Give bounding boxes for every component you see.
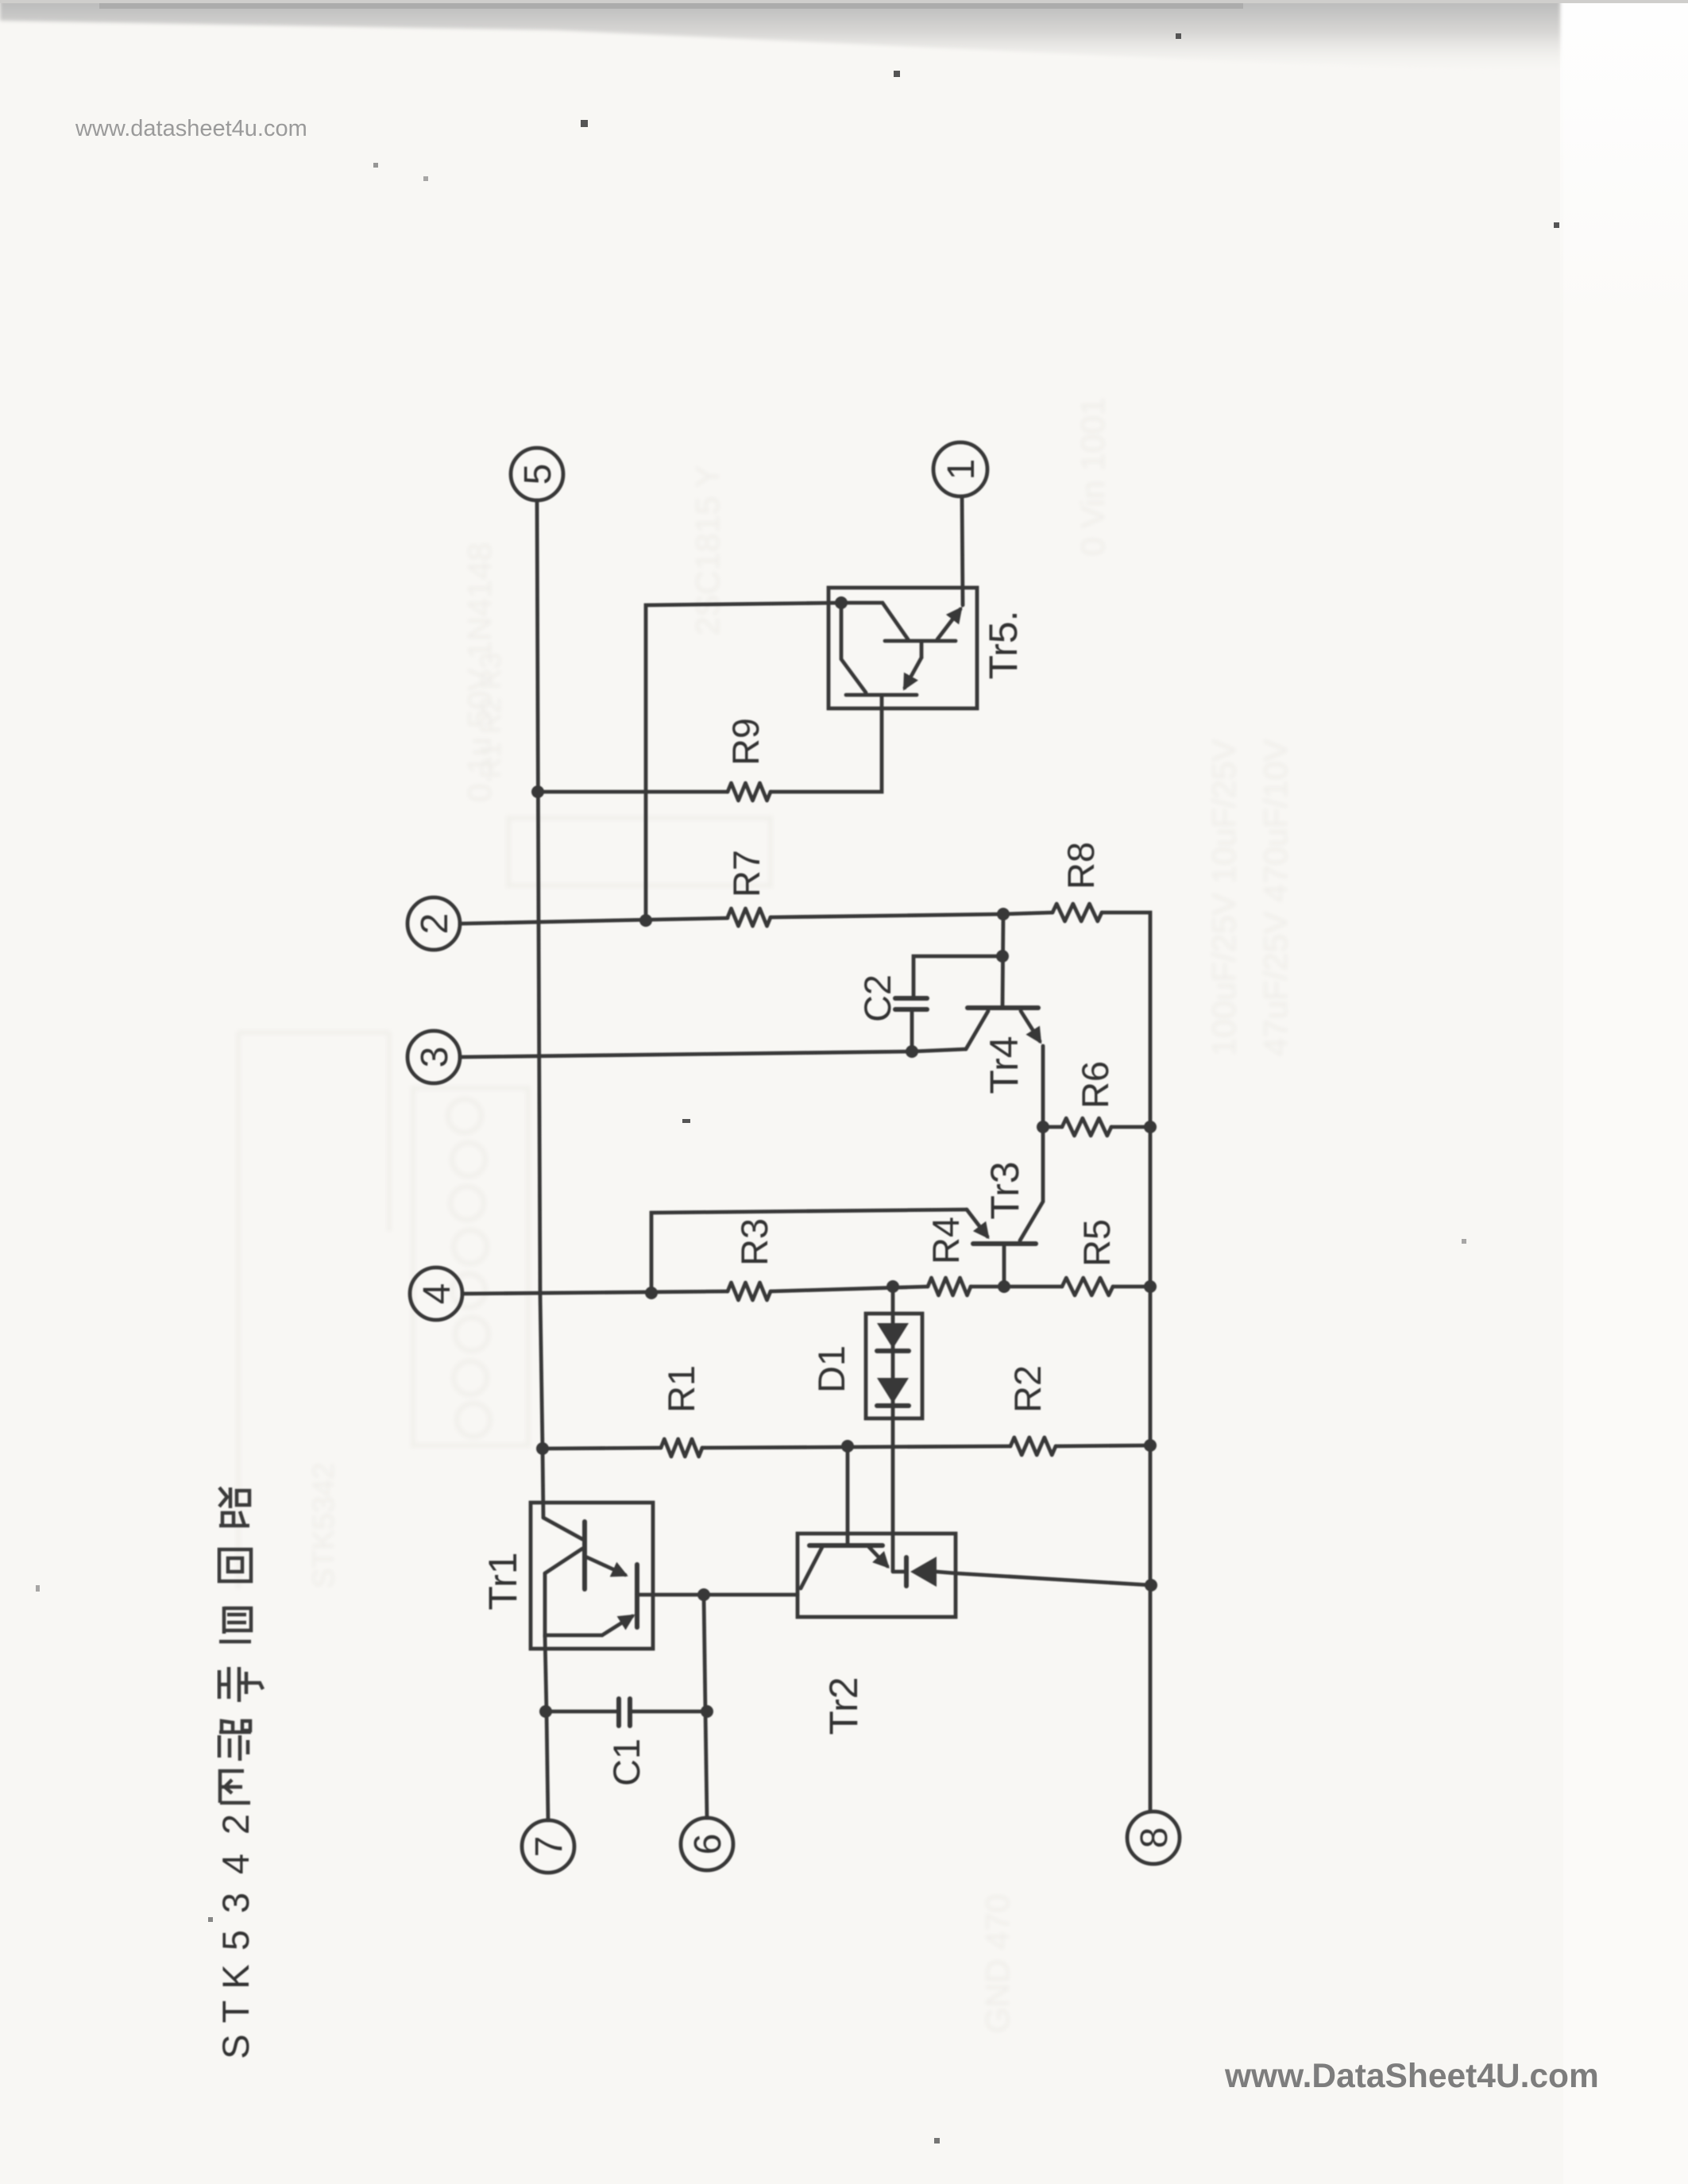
- wire pin2 net right: [771, 914, 1003, 917]
- svg-text:www.DataSheet4U.com: www.DataSheet4U.com: [1224, 2058, 1599, 2095]
- resistor R2: [1010, 1437, 1056, 1455]
- svg-text:C1: C1: [605, 1738, 647, 1786]
- svg-text:6: 6: [687, 1834, 729, 1855]
- svg-text:2SC1815 Y: 2SC1815 Y: [689, 465, 726, 635]
- kanji 路: [219, 1488, 249, 1526]
- wire Tr4 base lead: [1002, 914, 1003, 1006]
- svg-text:STK5342: STK5342: [307, 1463, 341, 1588]
- kanji 回: [219, 1549, 251, 1581]
- wire Tr1 output to Tr2: [653, 1593, 798, 1597]
- node C1 left junction: [539, 1705, 552, 1718]
- svg-text:2: 2: [414, 913, 456, 935]
- node R6 rail junction: [1144, 1121, 1157, 1133]
- wire R1 R2 net: [543, 1448, 661, 1449]
- svg-text:D1: D1: [810, 1345, 852, 1393]
- kanji 価: [219, 1607, 251, 1642]
- svg-text:S: S: [214, 2034, 257, 2059]
- svg-text:K: K: [214, 1964, 257, 1989]
- node Tr2 rail junction: [1145, 1579, 1157, 1592]
- wire R8 leads and right rail: [1003, 913, 1053, 914]
- svg-text:4: 4: [416, 1283, 458, 1305]
- svg-text:R5: R5: [1076, 1219, 1118, 1267]
- kanji 内: [220, 1771, 250, 1803]
- resistor R8: [1053, 904, 1102, 921]
- svg-text:4: 4: [214, 1854, 257, 1874]
- wire Tr2 base lead: [846, 1446, 850, 1544]
- resistor R4: [928, 1278, 971, 1295]
- wire R9 to Tr5 emitter lead: [771, 696, 882, 792]
- kanji 部: [219, 1721, 251, 1761]
- svg-text:Tr5.: Tr5.: [981, 610, 1026, 679]
- resistor R3: [728, 1283, 771, 1300]
- resistor R6: [1062, 1118, 1111, 1136]
- node C2 bottom junction: [906, 1045, 918, 1058]
- svg-text:R9: R9: [724, 718, 767, 766]
- TEXT LAYER: [214, 459, 1176, 2059]
- wire pin4 net left: [462, 1291, 728, 1294]
- svg-text:GND 470: GND 470: [979, 1894, 1016, 2033]
- svg-text:R4: R4: [925, 1217, 967, 1264]
- transistor Tr2 (with diode): [798, 1534, 956, 1617]
- node R5 rail junction: [1144, 1280, 1157, 1293]
- wire R9 net: [538, 790, 728, 794]
- svg-text:R1 R2 R3: R1 R2 R3: [474, 653, 507, 778]
- svg-text:100uF/25V 10uF/25V: 100uF/25V 10uF/25V: [1205, 739, 1242, 1056]
- node R9 junction on pin5 rail: [531, 785, 544, 798]
- resistor R5: [1062, 1278, 1113, 1295]
- svg-text:2: 2: [214, 1814, 257, 1835]
- capacitor C1: [546, 1699, 707, 1726]
- svg-text:7: 7: [528, 1836, 570, 1858]
- node Tr5 branch junction: [639, 914, 652, 927]
- svg-text:Tr2: Tr2: [821, 1677, 866, 1734]
- pin 2 terminal: [408, 897, 460, 950]
- svg-text:R7: R7: [725, 850, 767, 897]
- svg-text:Tr1: Tr1: [481, 1552, 525, 1610]
- node R2 rail junction: [1144, 1439, 1157, 1452]
- wire Tr2 output to rail: [956, 1573, 1151, 1585]
- top scan band: [0, 0, 1560, 73]
- wire R5 right lead: [1113, 1285, 1150, 1289]
- pin 1 terminal: [933, 442, 987, 496]
- node C2 top junction: [996, 950, 1009, 963]
- capacitor C2: [895, 956, 1002, 1053]
- wire R2 right lead: [1056, 1445, 1150, 1446]
- node C1 right junction: [701, 1705, 713, 1718]
- resistor R7: [728, 909, 771, 926]
- transistor Tr1 (darlington block): [531, 1503, 653, 1649]
- wire Tr3 emitter to pin4 branch: [651, 1210, 967, 1293]
- svg-text:47uF/25V 470uF/10V: 47uF/25V 470uF/10V: [1257, 739, 1294, 1056]
- node C1 branch junction: [697, 1588, 710, 1601]
- svg-text:R3: R3: [733, 1218, 775, 1266]
- node Tr4 emitter junction: [1037, 1121, 1049, 1133]
- kanji 等: [219, 1667, 263, 1702]
- svg-text:5: 5: [214, 1930, 257, 1951]
- wire pin2 net left: [460, 918, 728, 924]
- svg-text:R2: R2: [1006, 1365, 1049, 1413]
- svg-text:R8: R8: [1060, 842, 1102, 889]
- wire pin3 net: [460, 1049, 966, 1057]
- diode pair D1: [866, 1287, 922, 1571]
- wire pin5 rail lower: [545, 1635, 548, 1820]
- pin 4 terminal: [410, 1268, 462, 1320]
- wire pin4 net mid: [771, 1287, 928, 1291]
- wire pin1 lead: [962, 496, 963, 605]
- wire Tr5 base branch: [646, 603, 841, 920]
- pin 6 terminal: [681, 1818, 733, 1870]
- ghost bleed-through layer (decorative scan artifacts): [238, 397, 1294, 2033]
- svg-text:www.datasheet4u.com: www.datasheet4u.com: [75, 116, 307, 141]
- wire R6 leads: [1043, 1125, 1062, 1129]
- svg-text:Tr4: Tr4: [982, 1036, 1026, 1094]
- svg-text:R1: R1: [660, 1365, 702, 1413]
- title kanji glyphs (drawn): [219, 1488, 263, 1803]
- svg-text:3: 3: [414, 1047, 456, 1068]
- pin 7 terminal: [522, 1820, 574, 1873]
- svg-text:8: 8: [1134, 1827, 1176, 1849]
- node Tr3 branch junction: [645, 1287, 658, 1299]
- svg-text:Tr3: Tr3: [983, 1161, 1027, 1219]
- svg-text:3: 3: [214, 1893, 257, 1913]
- svg-text:0 Vin 1001: 0 Vin 1001: [1074, 397, 1111, 556]
- node Tr3 base junction: [998, 1280, 1010, 1293]
- svg-text:C2: C2: [856, 974, 898, 1022]
- svg-text:R6: R6: [1074, 1061, 1116, 1109]
- resistor R1: [661, 1439, 702, 1457]
- node R1 junction on pin5 rail: [536, 1442, 549, 1455]
- svg-text:5: 5: [517, 464, 559, 485]
- wire pin5 rail upper: [537, 500, 543, 1518]
- pin 8 terminal: [1127, 1812, 1180, 1864]
- node Tr2 base junction: [841, 1440, 854, 1453]
- wire pin4 net mid2: [971, 1285, 1062, 1289]
- transistor Tr4: [966, 1008, 1043, 1127]
- transistor Tr3: [967, 1127, 1043, 1287]
- transistor Tr5 (darlington block): [829, 588, 977, 708]
- wire C1 right branch: [704, 1596, 707, 1818]
- pin 5 terminal: [511, 448, 563, 500]
- node D1 junction: [886, 1280, 899, 1293]
- pin 3 terminal: [408, 1031, 460, 1083]
- wire R1 to R2: [702, 1446, 1010, 1448]
- resistor R9: [728, 783, 771, 801]
- svg-text:T: T: [214, 2001, 257, 2024]
- svg-text:1: 1: [941, 459, 983, 480]
- node R7 R8 junction: [997, 908, 1010, 920]
